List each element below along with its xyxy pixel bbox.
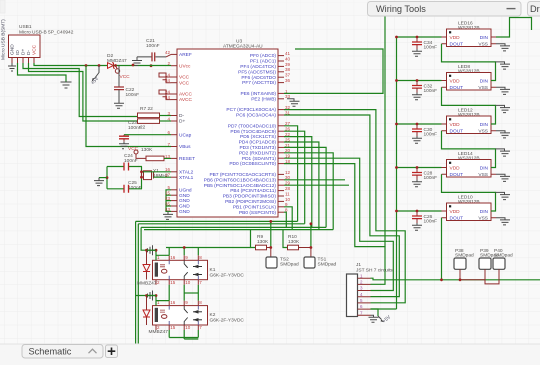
svg-text:100nF: 100nF bbox=[128, 185, 142, 191]
ground (chain node 4) bbox=[496, 192, 511, 199]
svg-text:100nF: 100nF bbox=[124, 158, 138, 164]
resistor R8 22 bbox=[138, 119, 172, 131]
svg-text:15: 15 bbox=[170, 280, 176, 285]
svg-text:VDD: VDD bbox=[450, 165, 461, 171]
svg-text:40: 40 bbox=[285, 56, 291, 61]
svg-text:VCC: VCC bbox=[128, 146, 139, 152]
wire PD7 drop bbox=[284, 126, 298, 222]
svg-text:RESET: RESET bbox=[179, 156, 195, 162]
ground (LED12 VSS) bbox=[496, 131, 510, 138]
wire USB D- to R8 row bbox=[29, 63, 138, 121]
test pad TS2 SMDpad bbox=[266, 248, 299, 269]
LED LED14 WS2812B bbox=[442, 151, 497, 178]
svg-text:12: 12 bbox=[285, 170, 291, 175]
svg-text:PB4 (PCINT4ADC11): PB4 (PCINT4ADC11) bbox=[230, 188, 276, 194]
wire PD3 drop bbox=[284, 147, 326, 227]
svg-text:DIN: DIN bbox=[480, 122, 489, 128]
wire LED12 DOUT to LED14 DIN bbox=[442, 131, 496, 168]
wire rail to LED10 VDD bbox=[397, 210, 442, 212]
ground (K1 coil) bbox=[148, 245, 157, 255]
svg-text:100nF: 100nF bbox=[424, 219, 438, 225]
wire PE6 loop bbox=[284, 49, 383, 93]
svg-text:Dra: Dra bbox=[530, 4, 540, 14]
capacitor C22 bbox=[114, 66, 139, 104]
wire VBus branch bbox=[86, 66, 171, 147]
svg-text:PF4 (ADC4TCK): PF4 (ADC4TCK) bbox=[240, 64, 276, 70]
svg-text:VCC: VCC bbox=[32, 44, 38, 55]
diode D4 MMBZ47 (K2) bbox=[143, 296, 168, 336]
wire K2 bottom bus bbox=[169, 338, 198, 340]
svg-text:DIN: DIN bbox=[480, 35, 489, 41]
ground (C21) bbox=[132, 57, 142, 66]
svg-text:10: 10 bbox=[185, 280, 191, 285]
wire K1 bottom drops bbox=[169, 285, 198, 293]
ground (MCU) bbox=[163, 211, 173, 219]
wire PB0 drop bbox=[284, 212, 286, 227]
capacitor C30 100nF bbox=[412, 124, 437, 138]
wire PC6 to J1 snake bbox=[284, 115, 399, 297]
svg-text:DIN: DIN bbox=[480, 209, 489, 215]
test pad P38 SMDpad bbox=[454, 248, 474, 269]
svg-text:13: 13 bbox=[165, 154, 171, 159]
svg-text:17: 17 bbox=[165, 173, 171, 178]
svg-text:130K: 130K bbox=[257, 239, 269, 245]
test pad P40 SMDpad bbox=[493, 248, 513, 269]
svg-text:DIN: DIN bbox=[480, 78, 489, 84]
svg-text:15: 15 bbox=[170, 325, 176, 330]
svg-text:15: 15 bbox=[165, 191, 171, 196]
svg-text:Micro USB B(SMT): Micro USB B(SMT) bbox=[1, 19, 7, 60]
svg-text:PD3 (TXD1INT3): PD3 (TXD1INT3) bbox=[239, 145, 276, 151]
svg-text:VSS: VSS bbox=[478, 172, 488, 178]
wire PD1 to J1 snake bbox=[284, 158, 393, 290]
op-amp U3 MCU ATMEGA32U4-AU bbox=[165, 39, 291, 218]
svg-text:D+: D+ bbox=[21, 49, 27, 55]
panel Wiring Tools bbox=[368, 2, 522, 17]
capacitor C28 100nF bbox=[412, 168, 437, 182]
svg-text:VDD: VDD bbox=[450, 209, 461, 215]
svg-text:PF6 (ADC6TDO: PF6 (ADC6TDO bbox=[241, 75, 276, 81]
wire MCU GND pins bus bbox=[166, 190, 171, 212]
test pad TS1 SMDpad bbox=[304, 248, 336, 269]
wire J1 pin6 +5V bbox=[371, 309, 379, 316]
svg-text:D+: D+ bbox=[179, 119, 185, 125]
wire PD5 drop bbox=[284, 137, 312, 228]
svg-text:100nF: 100nF bbox=[146, 43, 160, 49]
svg-text:28: 28 bbox=[285, 186, 291, 191]
wire USB ID stub bbox=[18, 63, 67, 82]
svg-text:VSS: VSS bbox=[478, 41, 488, 47]
wire PC7 to J1 snake bbox=[284, 110, 405, 303]
svg-text:23: 23 bbox=[165, 196, 171, 201]
svg-text:35: 35 bbox=[165, 201, 171, 206]
svg-text:PF0 (ADC0): PF0 (ADC0) bbox=[250, 53, 277, 59]
svg-text:Wiring Tools: Wiring Tools bbox=[376, 4, 426, 14]
svg-text:16: 16 bbox=[170, 255, 176, 260]
ground (C23) bbox=[119, 142, 129, 149]
svg-text:SMDpad: SMDpad bbox=[318, 262, 337, 268]
svg-text:PE6 (INT.6AIN0): PE6 (INT.6AIN0) bbox=[241, 91, 277, 97]
svg-text:16: 16 bbox=[165, 167, 171, 172]
svg-text:AREF: AREF bbox=[179, 52, 192, 58]
svg-text:UCap: UCap bbox=[179, 132, 192, 138]
svg-text:ID: ID bbox=[15, 50, 21, 55]
svg-text:PD0 (OC0BSCLINT0): PD0 (OC0BSCLINT0) bbox=[229, 161, 276, 167]
wire USB VCC to D2 bbox=[34, 63, 108, 66]
wire K2 pin wires bbox=[156, 293, 198, 301]
svg-text:VDD: VDD bbox=[450, 78, 461, 84]
svg-text:100nF: 100nF bbox=[424, 88, 438, 94]
svg-text:DOUT: DOUT bbox=[450, 85, 464, 91]
wire PD2 drop bbox=[284, 153, 333, 230]
capacitor C26 100nF bbox=[412, 211, 437, 225]
LED LED8 WS2812B bbox=[442, 64, 497, 91]
ground (chain node 1) bbox=[496, 62, 511, 69]
svg-text:130K: 130K bbox=[141, 147, 153, 153]
test pad P39 SMDpad bbox=[479, 248, 499, 269]
svg-text:VSS: VSS bbox=[478, 85, 488, 91]
wire relay feed left1 bbox=[136, 221, 156, 344]
wire P38 stub bbox=[459, 269, 461, 280]
svg-text:100nF: 100nF bbox=[128, 125, 142, 131]
svg-text:PC7 (ICP3CLK0OC4A): PC7 (ICP3CLK0OC4A) bbox=[226, 107, 276, 113]
ground (crystal caps) bbox=[94, 178, 104, 186]
wire rail to LED14 VDD bbox=[397, 167, 442, 169]
ground (C32) bbox=[412, 93, 422, 100]
ground (K2 coil) bbox=[148, 291, 157, 301]
wire PD6 drop bbox=[284, 131, 305, 224]
node junction on VCC wire bbox=[85, 64, 88, 67]
svg-text:43: 43 bbox=[165, 207, 171, 212]
wire LED14 DOUT to LED10 DIN bbox=[442, 174, 496, 211]
svg-text:100nF: 100nF bbox=[424, 45, 438, 51]
svg-text:MMBZ47: MMBZ47 bbox=[137, 281, 157, 287]
svg-text:G6K-2F-Y3VDC: G6K-2F-Y3VDC bbox=[210, 272, 245, 278]
ground (C30) bbox=[412, 136, 422, 143]
wire K2 bottom drops bbox=[169, 330, 198, 339]
svg-text:PB6 (PCINT6OC1BOC4BADC13): PB6 (PCINT6OC1BOC4BADC13) bbox=[204, 177, 277, 183]
svg-text:DOUT: DOUT bbox=[450, 172, 464, 178]
tab Schematic bbox=[22, 345, 103, 359]
wire PB1 drop bbox=[284, 207, 292, 230]
wire PD0 to J1 snake bbox=[284, 164, 385, 285]
connector J1 JST SH 7 circuits bbox=[347, 262, 394, 317]
resistor R7 22 bbox=[138, 106, 172, 118]
crystal Y1 16MHz bbox=[142, 167, 169, 189]
wire R9 feed bbox=[251, 230, 256, 248]
capacitor C23 bbox=[119, 120, 171, 142]
svg-text:VCC: VCC bbox=[120, 74, 131, 80]
capacitor C25 bbox=[107, 180, 142, 193]
svg-text:AVCC: AVCC bbox=[179, 92, 193, 98]
svg-text:PF1 (ADC1): PF1 (ADC1) bbox=[250, 59, 277, 65]
svg-text:VBus: VBus bbox=[179, 144, 191, 150]
svg-text:PD7 (T0OC4DADC10): PD7 (T0OC4DADC10) bbox=[228, 123, 277, 129]
wire R10 feed bbox=[283, 230, 288, 248]
button add sheet bbox=[106, 345, 118, 358]
resistor R9 130K bbox=[256, 234, 273, 250]
wire panel drop bbox=[384, 16, 386, 247]
svg-text:VCC: VCC bbox=[179, 80, 190, 86]
wire PB5 stub bbox=[284, 184, 349, 186]
svg-text:100nF: 100nF bbox=[424, 175, 438, 181]
svg-text:MMDZ47: MMDZ47 bbox=[107, 58, 127, 64]
svg-text:DOUT: DOUT bbox=[450, 41, 464, 47]
svg-text:PB3 (PDOPCINT3MISO): PB3 (PDOPCINT3MISO) bbox=[223, 194, 277, 200]
connector USB1 Micro USB-B 5P_C40942 bbox=[1, 19, 74, 63]
svg-text:D-: D- bbox=[179, 113, 184, 119]
svg-text:11: 11 bbox=[285, 191, 290, 196]
wire crystal ties bbox=[106, 167, 108, 189]
wire bundle h4 bbox=[144, 229, 333, 231]
wire PD4 drop bbox=[284, 142, 319, 230]
wire USB D+ to R7 row bbox=[23, 63, 138, 117]
bottom strip bbox=[0, 344, 540, 365]
svg-text:PD4 (ICP1ADC8): PD4 (ICP1ADC8) bbox=[239, 140, 277, 146]
svg-text:K2: K2 bbox=[210, 312, 216, 318]
svg-text:VSS: VSS bbox=[478, 128, 488, 134]
ground (chain node 2) bbox=[496, 105, 511, 112]
wire LED8 DOUT to LED12 DIN bbox=[442, 87, 496, 124]
svg-text:PD5 (XCK1CTS): PD5 (XCK1CTS) bbox=[240, 134, 276, 140]
wire LED10 DOUT to pads/J1 row bbox=[441, 218, 443, 280]
relay K2 G6K-2F-Y3VDC bbox=[153, 300, 245, 330]
LED LED16 WS2812B bbox=[442, 21, 497, 48]
svg-text:PD2 (RXD1INT2): PD2 (RXD1INT2) bbox=[239, 150, 276, 156]
ground (C22) bbox=[114, 103, 124, 108]
svg-text:AVCC: AVCC bbox=[179, 97, 193, 103]
wire bundle h2 bbox=[138, 223, 304, 225]
svg-text:PC6 (OC3AOC4A): PC6 (OC3AOC4A) bbox=[236, 113, 276, 119]
ground (chain node 3) bbox=[496, 149, 511, 156]
svg-text:UGnd: UGnd bbox=[179, 187, 192, 193]
svg-text:PB1 (PCINT1SCLK): PB1 (PCINT1SCLK) bbox=[233, 204, 277, 210]
wire bundle h3 bbox=[141, 226, 326, 228]
svg-text:XTAL1: XTAL1 bbox=[179, 175, 194, 181]
svg-text:PD1 (SDAINT1): PD1 (SDAINT1) bbox=[242, 156, 277, 162]
svg-text:XTAL2: XTAL2 bbox=[179, 169, 194, 175]
wire rail to LED8 VDD bbox=[397, 80, 442, 82]
svg-text:GND: GND bbox=[10, 44, 16, 55]
svg-text:DOUT: DOUT bbox=[450, 215, 464, 221]
ground (USB GND pin) bbox=[8, 63, 16, 71]
wire bundle h1 bbox=[136, 220, 298, 222]
svg-text:PF7 (ADC7TDI): PF7 (ADC7TDI) bbox=[242, 80, 276, 86]
svg-text:G6K-2F-Y3VDC: G6K-2F-Y3VDC bbox=[210, 318, 245, 324]
ground (J1 pin7) bbox=[369, 315, 379, 322]
wire rail to J1 bbox=[371, 308, 397, 310]
svg-text:VDD: VDD bbox=[450, 122, 461, 128]
wire XTAL2 bbox=[142, 171, 172, 173]
top toolbar strip bbox=[0, 0, 540, 15]
svg-text:D-: D- bbox=[26, 50, 32, 55]
svg-text:GND: GND bbox=[179, 198, 190, 204]
power +5V (J1) bbox=[378, 314, 393, 325]
svg-text:41: 41 bbox=[285, 51, 291, 56]
svg-text:10: 10 bbox=[185, 325, 191, 330]
svg-text:42: 42 bbox=[165, 50, 171, 55]
ground (PE2) bbox=[287, 99, 300, 106]
wire TS1 drop bbox=[310, 224, 312, 248]
wire diode ties bbox=[147, 250, 157, 295]
panel Drawing Tools (partial) bbox=[528, 2, 540, 17]
capacitor C34 100nF bbox=[412, 37, 437, 51]
capacitor C24 bbox=[107, 153, 142, 171]
svg-text:MMBZ47: MMBZ47 bbox=[149, 329, 169, 335]
resistor R10 130K bbox=[288, 234, 313, 250]
svg-text:VSS: VSS bbox=[478, 215, 488, 221]
svg-text:R7 22: R7 22 bbox=[140, 106, 153, 112]
wire K1 diode bottom bbox=[146, 279, 148, 281]
power +5V arrow bbox=[90, 66, 101, 87]
svg-text:VCC: VCC bbox=[179, 75, 190, 81]
svg-text:39: 39 bbox=[285, 62, 291, 67]
LED LED10 WS2812B bbox=[442, 195, 497, 222]
ground (LED14 VSS) bbox=[496, 174, 510, 181]
capacitor C32 100nF bbox=[412, 81, 437, 95]
wire LED16 DOUT to LED8 DIN bbox=[442, 44, 496, 81]
svg-text:GND: GND bbox=[179, 204, 190, 210]
svg-text:VDD: VDD bbox=[450, 35, 461, 41]
svg-text:PD6 (T1OC4DADC9): PD6 (T1OC4DADC9) bbox=[230, 129, 276, 135]
wire K1 pin wires bbox=[156, 248, 251, 256]
ground (LED10 VSS) bbox=[496, 218, 510, 225]
relay K1 G6K-2F-Y3VDC bbox=[153, 255, 245, 285]
svg-text:38: 38 bbox=[285, 67, 291, 72]
ground (USB ID) bbox=[61, 82, 72, 88]
svg-text:PB0 (SSPCINT0): PB0 (SSPCINT0) bbox=[239, 210, 276, 216]
svg-text:Schematic: Schematic bbox=[29, 347, 72, 357]
ground (LED8 VSS) bbox=[496, 87, 510, 94]
svg-text:UVcc: UVcc bbox=[179, 63, 191, 69]
svg-text:100nF: 100nF bbox=[126, 92, 140, 98]
svg-text:PE2 (HWB): PE2 (HWB) bbox=[251, 96, 276, 102]
diode D3 MMBZ47 (K1) bbox=[143, 250, 150, 279]
wire rail to LED16 VDD bbox=[397, 36, 442, 38]
svg-text:130K: 130K bbox=[288, 239, 300, 245]
wire LED16 DIN to top bbox=[496, 18, 532, 38]
capacitor C21 bbox=[137, 38, 171, 61]
svg-text:100nF: 100nF bbox=[424, 132, 438, 138]
wire PB6 stub bbox=[284, 179, 345, 181]
svg-text:J1: J1 bbox=[356, 262, 361, 268]
wire XTAL1 bbox=[154, 176, 172, 178]
svg-text:GND: GND bbox=[179, 193, 190, 199]
wire +5V rail (LED column) bbox=[396, 37, 398, 309]
wire J1 pin1 long bbox=[371, 278, 540, 280]
svg-text:SMDpad: SMDpad bbox=[280, 262, 299, 268]
svg-text:PB7 (PCINT7OC0AOC1CRTS): PB7 (PCINT7OC0AOC1CRTS) bbox=[209, 172, 276, 178]
wire K1 to TS row bbox=[183, 246, 186, 249]
power VCC ports at MCU VCC pins bbox=[159, 73, 171, 100]
wire rail to LED12 VDD bbox=[397, 123, 442, 125]
svg-text:USB1: USB1 bbox=[19, 24, 32, 30]
ground (LED16 VSS) bbox=[496, 44, 510, 51]
svg-text:PB2 (PDIPCINT2MOSI): PB2 (PDIPCINT2MOSI) bbox=[225, 199, 276, 205]
diode D2 MMDZ47 bbox=[107, 53, 127, 68]
svg-text:16: 16 bbox=[170, 300, 176, 305]
ground (C26) bbox=[412, 223, 422, 230]
svg-text:K1: K1 bbox=[210, 267, 216, 273]
wire TS2 drop bbox=[270, 221, 272, 247]
svg-text:PF5 (ADC5TMS)): PF5 (ADC5TMS)) bbox=[238, 69, 276, 75]
resistor R6 130K pullup bbox=[128, 146, 171, 161]
svg-text:DOUT: DOUT bbox=[450, 128, 464, 134]
wire relay feed left2 bbox=[141, 227, 156, 260]
wire D2 to UVcc pin bbox=[150, 64, 153, 67]
svg-text:PB5 (PCINT5OC1AOC4BADC12): PB5 (PCINT5OC1AOC4BADC12) bbox=[204, 183, 277, 189]
ground (C28) bbox=[412, 180, 422, 187]
LED LED12 WS2812B bbox=[442, 108, 497, 135]
svg-text:DIN: DIN bbox=[480, 165, 489, 171]
svg-text:36: 36 bbox=[285, 78, 291, 83]
svg-text:37: 37 bbox=[285, 73, 291, 78]
svg-text:10: 10 bbox=[285, 197, 291, 202]
wire P39 P40 U-link bbox=[485, 269, 499, 284]
svg-text:GND: GND bbox=[179, 209, 190, 215]
ground (C34) bbox=[412, 49, 422, 56]
power VCC port bbox=[115, 66, 130, 81]
